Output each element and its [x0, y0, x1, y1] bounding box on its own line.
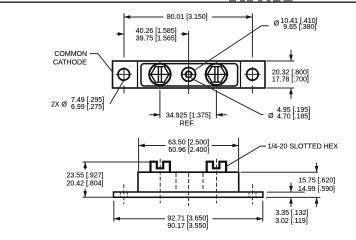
svg-text:92.71 [3.650]: 92.71 [3.650]: [167, 215, 208, 222]
svg-text:2X Ø: 2X Ø: [51, 102, 68, 109]
svg-text:90.17 [3.550]: 90.17 [3.550]: [167, 223, 208, 230]
svg-text:1/4-20 SLOTTED HEX: 1/4-20 SLOTTED HEX: [268, 144, 339, 151]
svg-text:23.55 [.927]: 23.55 [.927]: [67, 172, 104, 179]
svg-text:6.99 [.275]: 6.99 [.275]: [71, 104, 104, 111]
svg-text:9.65 [.380]: 9.65 [.380]: [283, 24, 316, 31]
svg-text:14.99 [.590]: 14.99 [.590]: [298, 186, 335, 193]
svg-text:COMMON: COMMON: [54, 51, 87, 58]
svg-text:Ø: Ø: [274, 21, 280, 28]
svg-text:REF.: REF.: [180, 121, 195, 128]
svg-text:4.70 [.185]: 4.70 [.185]: [277, 114, 310, 121]
svg-text:CATHODE: CATHODE: [53, 60, 87, 67]
svg-text:20.42 [.804]: 20.42 [.804]: [67, 181, 104, 188]
svg-text:17.78 [.700]: 17.78 [.700]: [272, 77, 309, 84]
svg-text:80.01 [3.150]: 80.01 [3.150]: [167, 14, 208, 21]
svg-text:40.26 [1.585]: 40.26 [1.585]: [136, 28, 177, 35]
svg-text:Ø: Ø: [268, 113, 274, 120]
svg-text:39.75 [1.565]: 39.75 [1.565]: [136, 36, 177, 43]
svg-text:7.49 [.295]: 7.49 [.295]: [71, 97, 104, 104]
svg-text:63.50 [2.500]: 63.50 [2.500]: [168, 140, 209, 147]
svg-text:20.32 [.800]: 20.32 [.800]: [272, 69, 309, 76]
svg-text:3.35 [.132]: 3.35 [.132]: [275, 210, 308, 217]
svg-text:60.96 [2.400]: 60.96 [2.400]: [168, 147, 209, 154]
svg-text:3.02 [.119]: 3.02 [.119]: [275, 218, 308, 225]
svg-text:34.925 [1.375]: 34.925 [1.375]: [166, 112, 211, 119]
svg-text:15.75 [.620]: 15.75 [.620]: [298, 177, 335, 184]
